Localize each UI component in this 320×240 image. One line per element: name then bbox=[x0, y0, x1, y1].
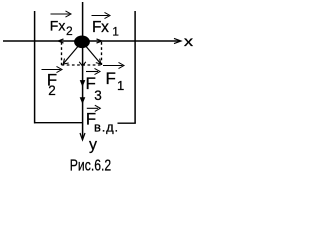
svg-text:в.д.: в.д. bbox=[94, 120, 119, 135]
svg-text:F: F bbox=[106, 69, 116, 88]
vector Fx2 arrowhead (left along axis) bbox=[58, 39, 63, 43]
arrowhead on y line at dashed edge bbox=[79, 62, 86, 66]
vector Fvd arrowhead bbox=[80, 98, 84, 103]
svg-text:2: 2 bbox=[66, 24, 73, 38]
wire right vertical bbox=[134, 11, 136, 123]
svg-text:x: x bbox=[184, 33, 193, 49]
label F1 bbox=[103, 65, 123, 67]
wire dashed right vertical bbox=[101, 42, 103, 65]
label Fx2 bbox=[51, 13, 70, 15]
y axis bbox=[82, 2, 84, 139]
label F3 bbox=[86, 71, 98, 73]
wire dashed left vertical bbox=[61, 42, 63, 65]
x axis bbox=[3, 40, 180, 42]
vector F1 diagonal bbox=[84, 44, 101, 64]
x axis arrowhead bbox=[174, 38, 181, 43]
label F2 bbox=[42, 69, 61, 71]
svg-text:3: 3 bbox=[94, 88, 102, 103]
vector F2 diagonal bbox=[64, 44, 81, 64]
svg-text:2: 2 bbox=[48, 83, 56, 98]
y axis arrowhead bbox=[80, 133, 85, 140]
vector Fx1 arrowhead (right along axis) bbox=[97, 39, 102, 43]
label Fvd bbox=[87, 107, 98, 109]
wire bottom right bbox=[118, 122, 136, 124]
svg-text:1: 1 bbox=[117, 78, 124, 93]
svg-text:1: 1 bbox=[112, 24, 119, 38]
svg-text:Рис.6.2: Рис.6.2 bbox=[70, 158, 111, 175]
svg-text:y: y bbox=[89, 137, 97, 154]
svg-text:Fx: Fx bbox=[50, 18, 66, 34]
wire bottom left bbox=[34, 122, 83, 124]
svg-text:Fx: Fx bbox=[92, 19, 109, 36]
wire dashed bottom bbox=[62, 64, 102, 66]
label Fx1 bbox=[92, 15, 109, 17]
wire left vertical bbox=[34, 11, 36, 123]
vector F3 arrowhead bbox=[80, 81, 84, 86]
node body ellipse bbox=[74, 36, 90, 49]
